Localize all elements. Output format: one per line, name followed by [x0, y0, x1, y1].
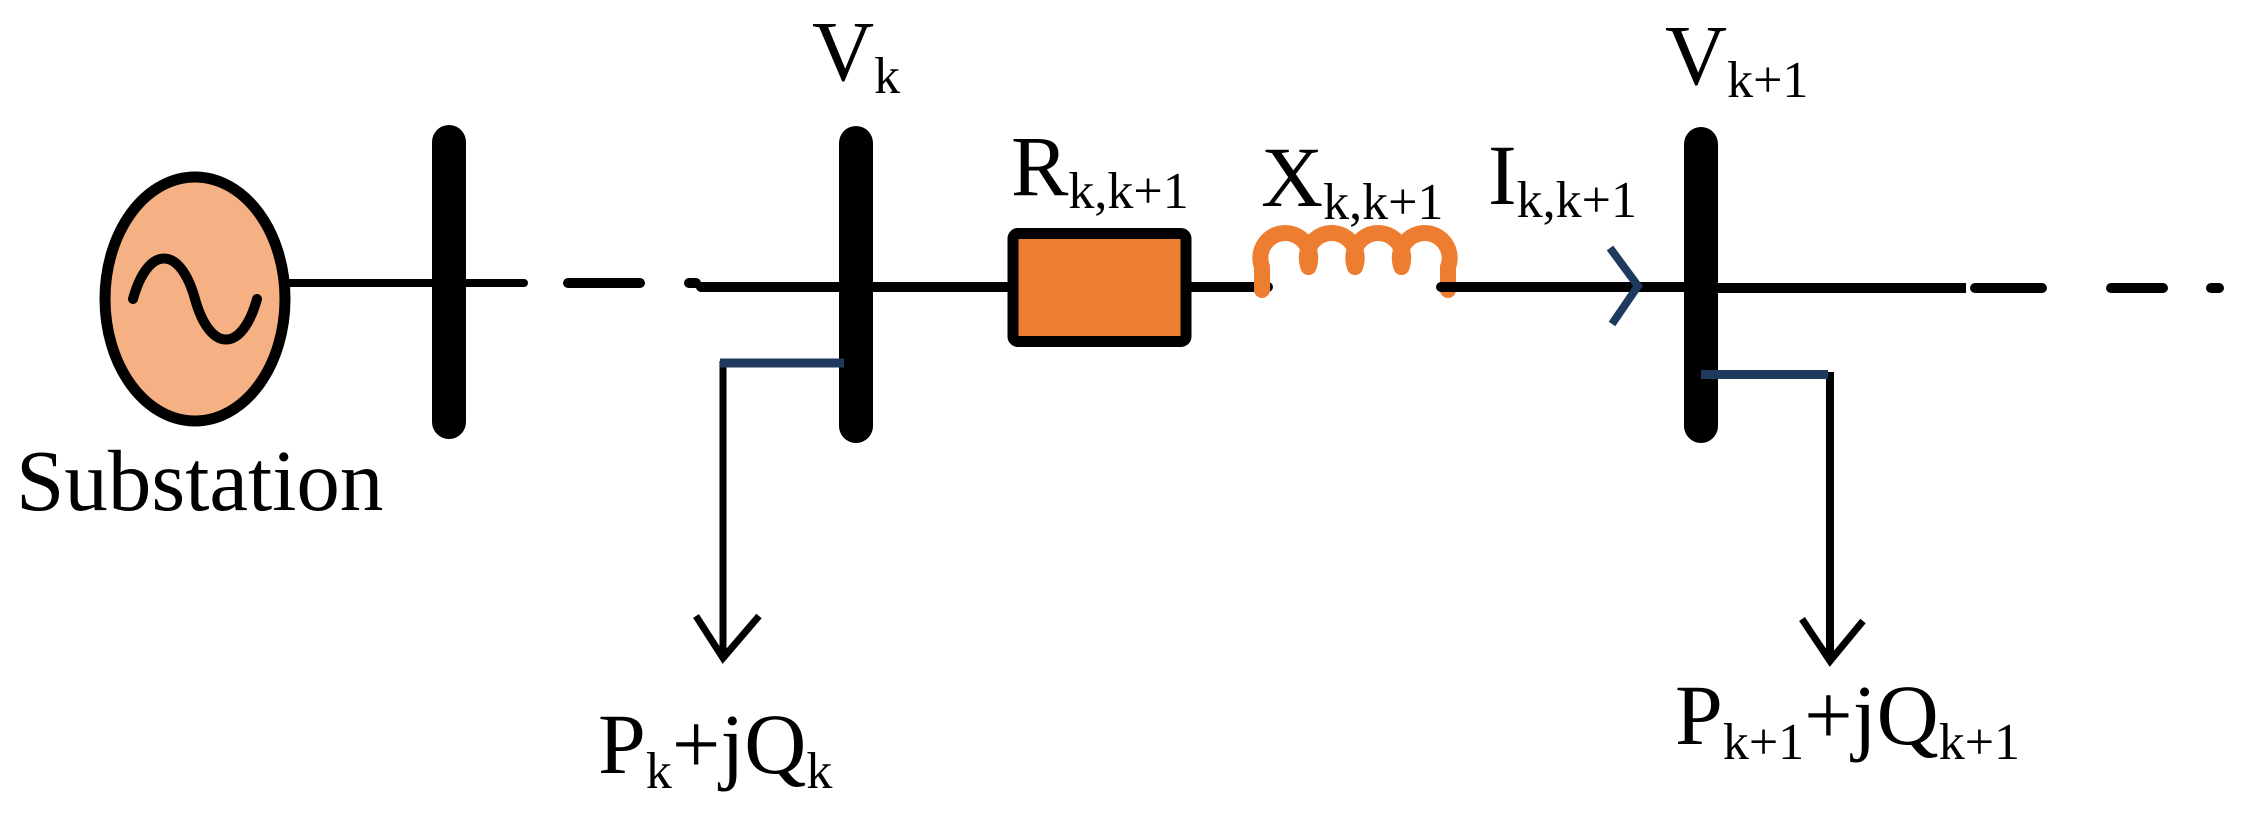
wire resistor to inductor: [1191, 282, 1268, 292]
svg-text:Pk+jQk: Pk+jQk: [598, 696, 832, 800]
wire inductor to busbar k+1: [1441, 282, 1684, 292]
inductor coil hump 3: [1353, 233, 1403, 267]
inductor coil Xk,k+1 hump 1: [1260, 233, 1310, 290]
resistor R: [1013, 234, 1186, 342]
load arrowhead at bus k: [696, 616, 759, 658]
right dash 1: [1975, 283, 2042, 293]
load tap navy horizontal at bus k: [720, 359, 844, 368]
svg-text:Vk+1: Vk+1: [1665, 7, 1808, 109]
sine wave inside source: [133, 259, 257, 340]
busbar B3 (bus k+1): [1684, 144, 1718, 426]
svg-text:Pk+1+jQk+1: Pk+1+jQk+1: [1675, 667, 2020, 771]
inductor coil hump 2: [1307, 233, 1357, 267]
svg-text:Substation: Substation: [16, 432, 383, 529]
load tap vertical line at bus k+1: [1826, 372, 1834, 657]
svg-text:Ik,k+1: Ik,k+1: [1488, 127, 1637, 229]
AC source (substation) circle: [105, 177, 285, 421]
inductor coil hump 4: [1400, 233, 1450, 290]
wire dash segment: [568, 278, 640, 288]
svg-text:Xk,k+1: Xk,k+1: [1261, 129, 1443, 231]
wire from source to busbar 1: [288, 279, 524, 287]
wire dash dot: [689, 278, 696, 288]
busbar B1: [432, 142, 466, 422]
load tap navy horizontal at bus k+1: [1701, 370, 1828, 379]
right dash 2: [2111, 283, 2163, 293]
wire to busbar Vk and resistor: [701, 282, 1009, 292]
svg-text:Vk: Vk: [812, 3, 900, 105]
load arrowhead at bus k+1: [1802, 619, 1863, 661]
wire right of busbar k+1: [1718, 283, 1966, 293]
current arrow chevron: [1610, 248, 1638, 324]
svg-text:Rk,k+1: Rk,k+1: [1011, 118, 1189, 220]
load tap vertical line at bus k: [720, 361, 727, 654]
busbar B2 (bus k): [839, 143, 873, 426]
right dash dot: [2211, 283, 2219, 293]
